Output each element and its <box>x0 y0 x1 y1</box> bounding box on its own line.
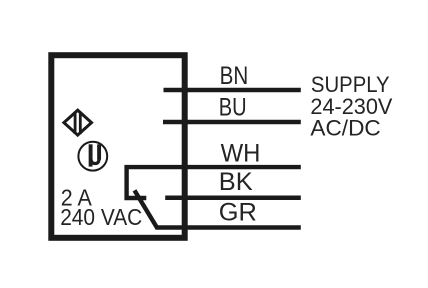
microprocessor circle <box>78 142 107 171</box>
diamond slot line right <box>79 112 82 134</box>
diamond slot line left <box>74 112 77 134</box>
switch lever + wire GR <box>135 190 301 227</box>
mu glyph <box>91 144 100 166</box>
svg-text:WH: WH <box>221 140 261 168</box>
wire BU <box>163 120 301 125</box>
proximity sensor symbol (diamond) <box>64 110 92 135</box>
svg-text:BU: BU <box>219 92 247 121</box>
svg-text:AC/DC: AC/DC <box>310 115 380 140</box>
svg-text:BN: BN <box>220 61 249 90</box>
wire BK (fixed contact) <box>165 195 301 200</box>
svg-text:240 VAC: 240 VAC <box>60 204 142 230</box>
svg-text:BK: BK <box>219 168 253 196</box>
sensor body box <box>51 55 184 238</box>
wire BN <box>164 88 301 93</box>
wire WH with bend to switch common <box>127 167 301 198</box>
svg-text:GR: GR <box>219 199 257 227</box>
